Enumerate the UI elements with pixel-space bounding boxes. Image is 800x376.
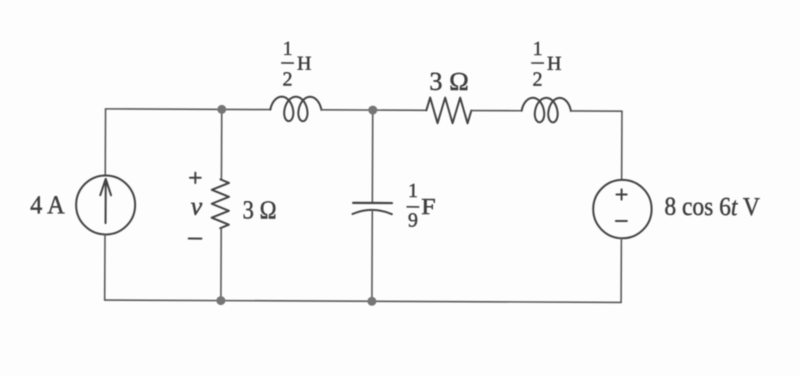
- current source I1 circle: [76, 175, 135, 234]
- svg-text:3 Ω: 3 Ω: [243, 195, 277, 224]
- wire node column 2 bottom: [371, 210, 373, 301]
- svg-text:9: 9: [408, 210, 418, 232]
- label 1/2 H for L1: [281, 38, 312, 91]
- svg-text:1: 1: [533, 38, 543, 60]
- wire left vertical top: [104, 109, 106, 176]
- resistor R1 (3 ohm vertical) zigzag: [212, 179, 229, 228]
- wire node column 2 top: [371, 110, 373, 203]
- svg-text:1: 1: [408, 180, 418, 202]
- svg-text:1: 1: [283, 38, 293, 60]
- svg-text:H: H: [547, 53, 562, 75]
- svg-text:F: F: [421, 194, 436, 219]
- current source arrow: [100, 179, 111, 223]
- voltage source minus sign: [616, 220, 627, 222]
- wire right vertical bottom: [620, 238, 622, 302]
- voltage source plus sign: [616, 189, 626, 199]
- wire left vertical bottom: [104, 234, 106, 300]
- node B top-middle junction dot: [368, 106, 377, 115]
- wire right vertical top: [621, 111, 623, 180]
- capacitor C1 curved bottom plate: [352, 210, 391, 214]
- wire top rail between L1 and R2: [321, 109, 426, 111]
- capacitor C1 top plate: [353, 202, 392, 204]
- node A top-left junction dot: [217, 105, 226, 114]
- svg-text:8 cos 6t V: 8 cos 6t V: [664, 192, 760, 221]
- wire top rail between R2 and L2: [471, 110, 521, 112]
- wire top rail right segment: [571, 110, 622, 112]
- wire top rail left segment: [106, 108, 271, 111]
- voltage source V1 circle: [593, 180, 652, 239]
- svg-text:4 A: 4 A: [30, 190, 65, 219]
- resistor R2 (3 ohm horizontal) zigzag: [426, 98, 471, 124]
- minus polarity mark for v: [189, 238, 202, 240]
- svg-text:H: H: [297, 53, 312, 75]
- wire node column 1 bottom: [220, 228, 222, 300]
- svg-text:3 Ω: 3 Ω: [429, 67, 469, 96]
- label 1/9 F for C1: [406, 180, 435, 232]
- plus polarity mark for v: [190, 173, 201, 183]
- svg-text:2: 2: [282, 68, 292, 90]
- inductor L2 (1/2 H) coil: [522, 98, 571, 123]
- wire node column 1 top: [220, 109, 222, 179]
- inductor L1 (1/2 H) coil: [270, 97, 321, 122]
- node C bottom junction dot 1: [216, 296, 225, 305]
- wire bottom rail: [105, 300, 621, 302]
- label 1/2 H for L2: [531, 38, 562, 91]
- svg-text:v: v: [191, 192, 203, 221]
- node D bottom junction dot 2: [367, 297, 376, 306]
- svg-text:2: 2: [532, 69, 542, 91]
